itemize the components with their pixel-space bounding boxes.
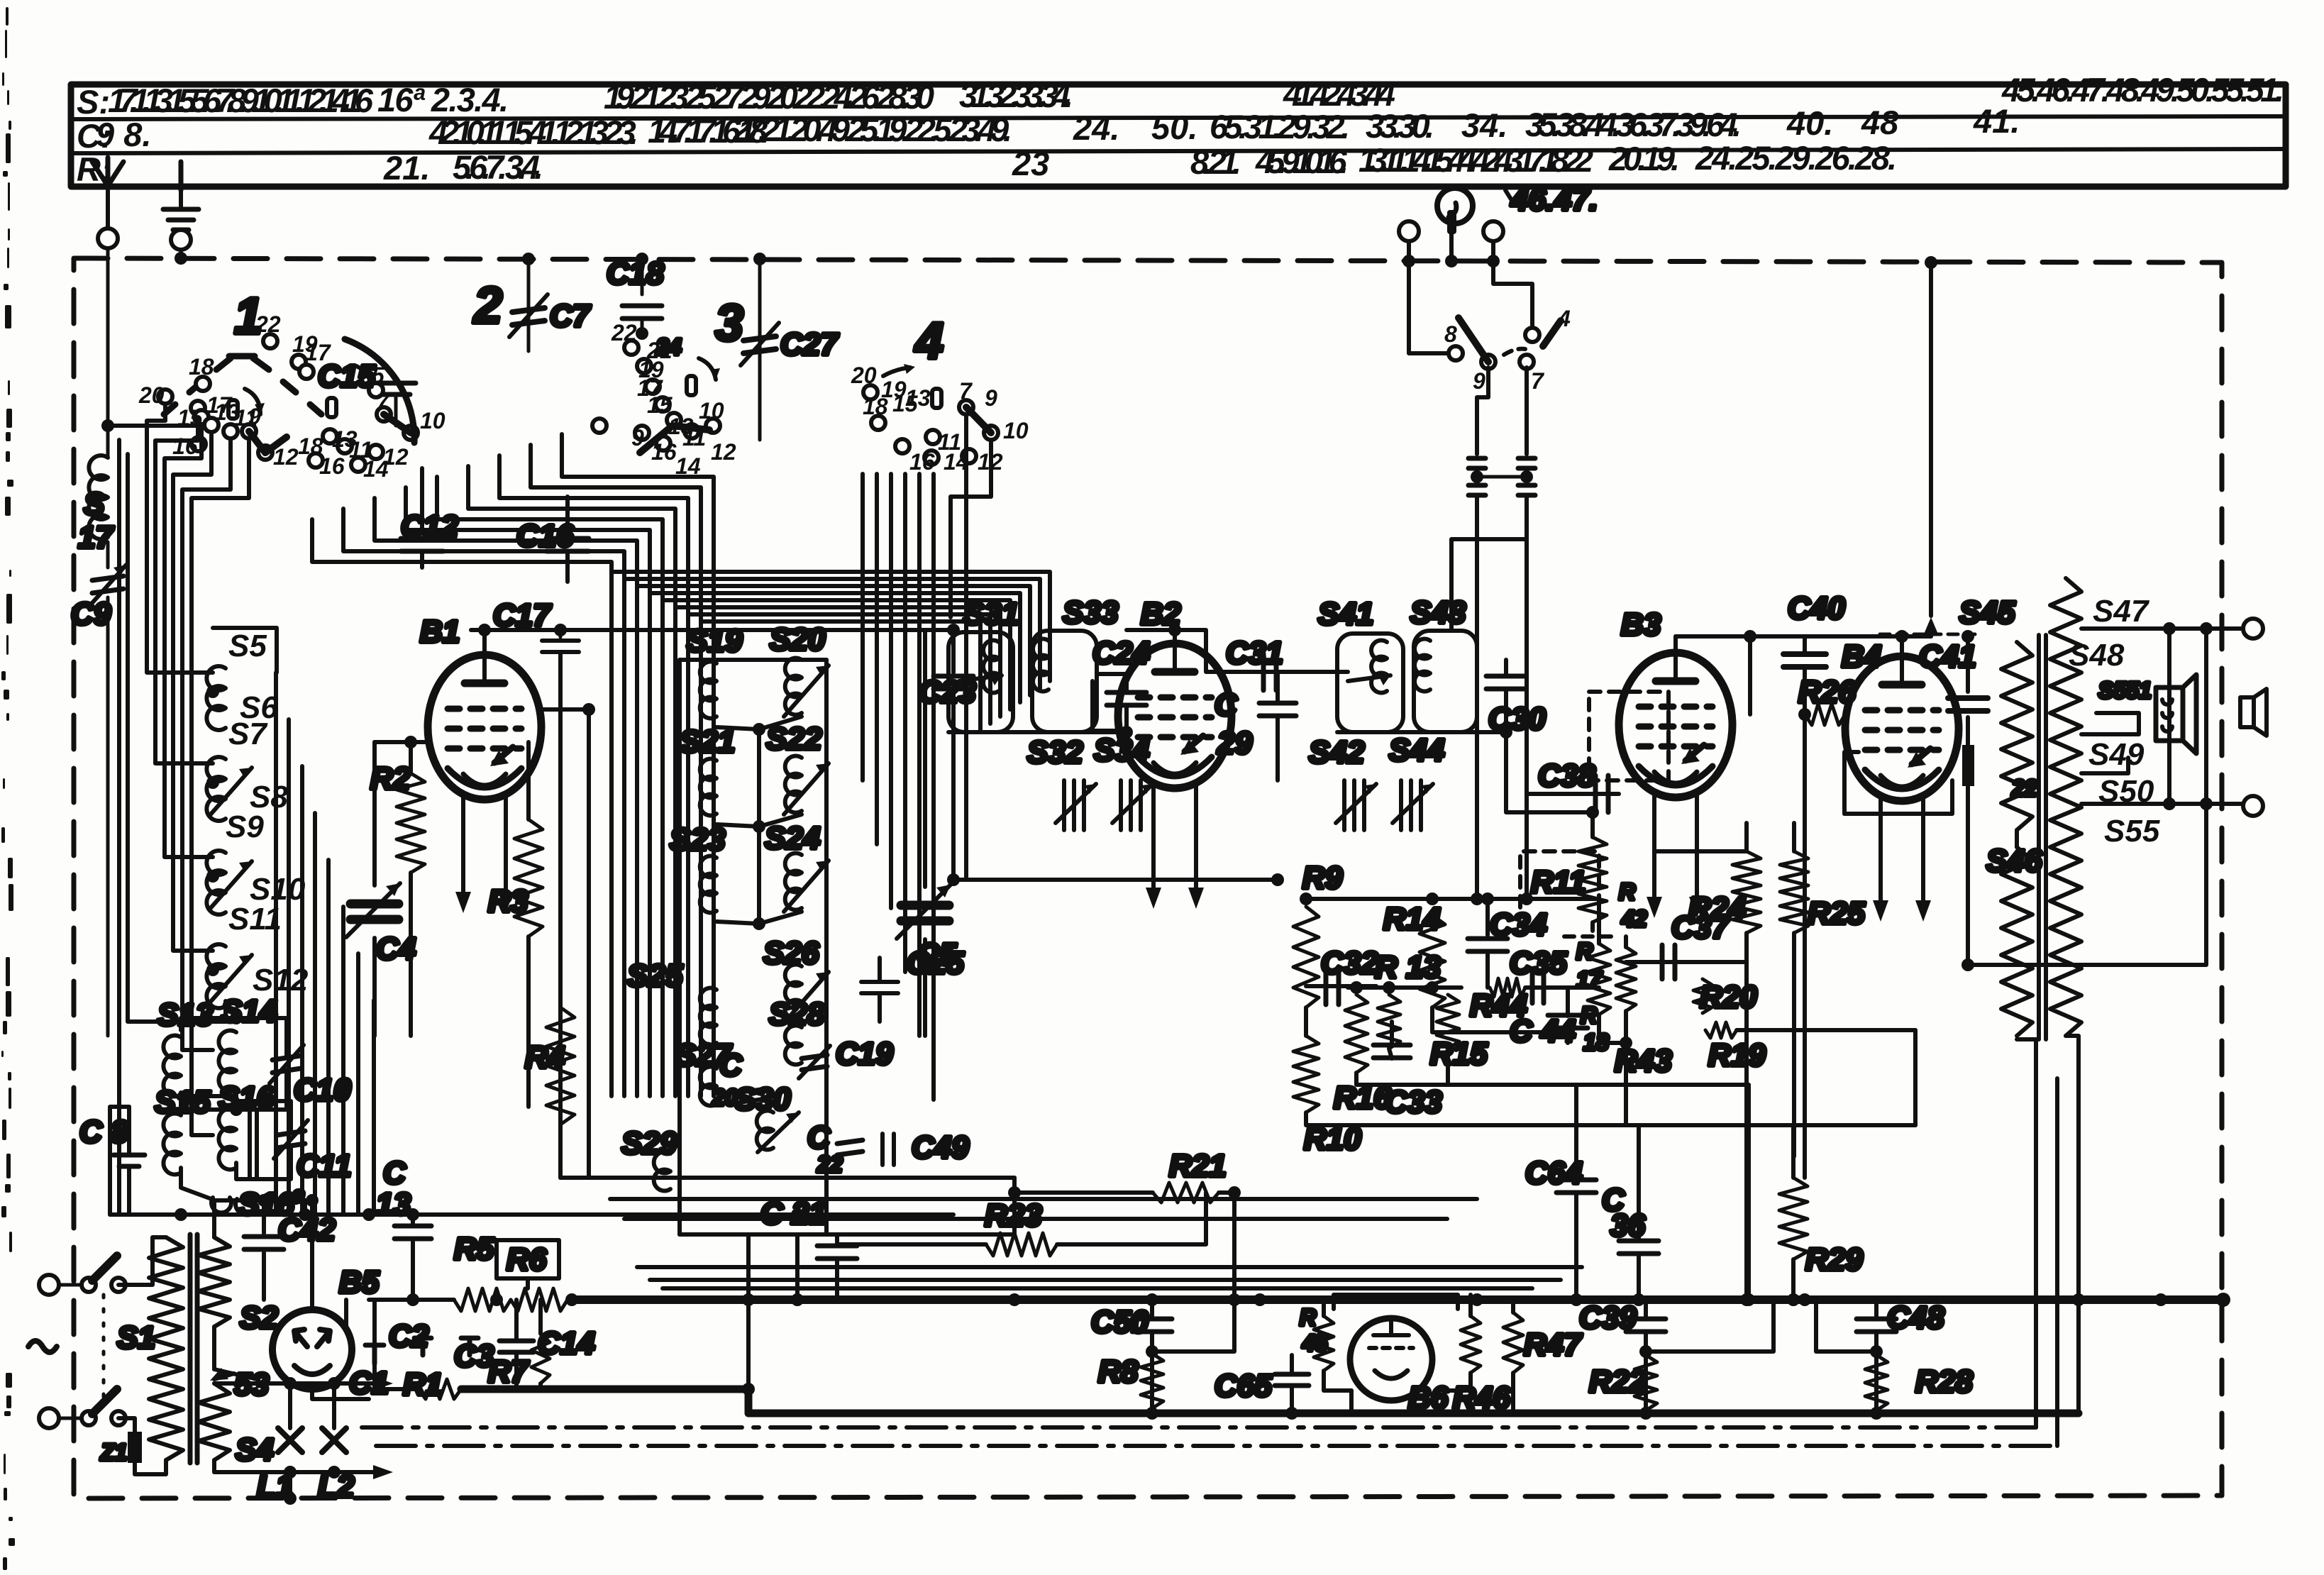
- svg-text:C19: C19: [836, 1037, 893, 1071]
- svg-text:9: 9: [985, 385, 997, 411]
- svg-text:R43: R43: [1615, 1044, 1672, 1078]
- svg-text:R19: R19: [1708, 1038, 1766, 1073]
- middle bank junction dots: [753, 723, 765, 736]
- long verticals through AF area: [1525, 794, 1529, 899]
- svg-text:C38: C38: [1538, 758, 1595, 793]
- svg-text:20.19.: 20.19.: [1608, 140, 1680, 177]
- svg-text:C7: C7: [550, 299, 592, 333]
- svg-text:12: 12: [711, 439, 736, 465]
- parts row C: [77, 102, 2020, 155]
- svg-text:10: 10: [420, 408, 446, 433]
- svg-text:4: 4: [914, 313, 944, 370]
- svg-text:20: 20: [712, 1085, 738, 1110]
- tube B3 filament leads: [1652, 793, 1656, 900]
- svg-text:S2: S2: [240, 1300, 278, 1335]
- wire gram right line down: [1525, 495, 1529, 794]
- coil S26 variable: [785, 965, 802, 1022]
- wire bundle horizontal staircase to IF strip: [613, 572, 1050, 731]
- wire IF lower rail: [953, 878, 1278, 882]
- gram switch contacts: [1409, 241, 1447, 353]
- svg-text:18: 18: [298, 433, 323, 459]
- svg-text:S19: S19: [687, 624, 743, 658]
- wire B2 grid left: [1092, 681, 1118, 731]
- svg-text:B1: B1: [420, 614, 460, 649]
- svg-text:41.: 41.: [1973, 102, 2020, 140]
- svg-text:17.1.13.15.5.6.7.8.9.10.11.12.: 17.1.13.15.5.6.7.8.9.10.11.12.14.16: [108, 82, 374, 119]
- wafer 3 pin labels: [611, 320, 736, 479]
- low-tension bus: [397, 1387, 419, 1391]
- tap wires secondary S49 box: [2081, 713, 2139, 734]
- svg-text:B6: B6: [1408, 1381, 1449, 1415]
- svg-text:20: 20: [138, 382, 165, 408]
- coil S17: [89, 455, 108, 539]
- svg-text:2: 2: [472, 277, 502, 334]
- svg-text:C17: C17: [493, 598, 552, 633]
- coil S15: [163, 1114, 181, 1175]
- svg-text:S42: S42: [1309, 735, 1365, 770]
- svg-text:S32: S32: [1027, 735, 1083, 770]
- mains switch lower: [82, 1411, 96, 1425]
- svg-text:R5: R5: [454, 1232, 494, 1266]
- svg-text:42.10.11 15.41.12.13.2.3.: 42.10.11 15.41.12.13.2.3.: [428, 114, 638, 151]
- coil S24 variable: [785, 853, 802, 910]
- wire bundle from wafer 1 to left coil bank: [147, 407, 249, 1135]
- chassis dashed border: [74, 258, 2222, 1498]
- svg-text:B5: B5: [339, 1265, 380, 1300]
- coil S9 variable: [206, 851, 226, 914]
- svg-text:S48: S48: [2069, 638, 2125, 673]
- svg-text:11: 11: [682, 425, 706, 451]
- svg-text:7: 7: [959, 378, 973, 404]
- mains switch upper: [82, 1278, 96, 1292]
- wire earth into chassis: [179, 250, 183, 258]
- svg-text:31.32.33.34.: 31.32.33.34.: [959, 77, 1073, 114]
- svg-text:C1: C1: [349, 1366, 389, 1400]
- svg-text:24.: 24.: [1073, 109, 1119, 147]
- lower left horizontal bus wires: [110, 1212, 953, 1217]
- svg-text:S45: S45: [1959, 595, 2015, 630]
- B6 box wires: [1334, 1295, 1458, 1309]
- svg-text:9: 9: [1473, 368, 1485, 394]
- svg-text:R47: R47: [1524, 1327, 1583, 1362]
- svg-text:C 21: C 21: [760, 1196, 826, 1231]
- svg-text:42: 42: [1621, 906, 1647, 932]
- svg-text:16: 16: [909, 449, 935, 475]
- svg-text:S43: S43: [1410, 595, 1466, 630]
- coil S19: [700, 662, 716, 719]
- svg-text:C42: C42: [278, 1212, 336, 1247]
- svg-text:9: 9: [248, 404, 261, 429]
- junction dots on left coils: [206, 685, 219, 698]
- svg-text:R: R: [1300, 1305, 1316, 1330]
- trimmer capacitor C10: [272, 1056, 301, 1060]
- svg-text:C: C: [719, 1048, 743, 1083]
- svg-text:46.47.: 46.47.: [1510, 182, 1598, 217]
- wire top border to B4 area: [1929, 262, 1933, 616]
- svg-text:Z1: Z1: [100, 1439, 127, 1465]
- svg-text:S33: S33: [1063, 595, 1118, 630]
- svg-text:29: 29: [1217, 726, 1252, 761]
- coil S23: [700, 856, 716, 913]
- wires around S13/S14 box: [181, 1018, 236, 1030]
- coil S13: [163, 1036, 181, 1097]
- wire long verticals from wafer 4 to C5: [951, 443, 991, 617]
- trimmer capacitor C7: [527, 259, 531, 351]
- wire bundle wafer 2/3 verticals: [312, 434, 714, 1096]
- svg-text:10: 10: [699, 398, 724, 424]
- speaker tap mid row: [2081, 802, 2242, 806]
- wires around S15/S16 box: [181, 1096, 236, 1108]
- svg-text:3: 3: [715, 295, 743, 352]
- svg-text:8. 21.: 8. 21.: [1190, 143, 1241, 181]
- svg-text:S14: S14: [221, 994, 277, 1029]
- wire antenna to S17: [106, 248, 110, 426]
- parts-list table frame: [71, 84, 2286, 187]
- svg-text:4: 4: [1557, 306, 1571, 331]
- coil S16 with core: [218, 1109, 236, 1170]
- wafer 2 contacts: [263, 334, 418, 472]
- wire C24 to B2 top: [1127, 628, 1175, 632]
- coil S25: [700, 988, 716, 1045]
- svg-text:L2: L2: [318, 1469, 355, 1504]
- svg-text:C9: C9: [71, 597, 111, 631]
- wire S43 top to gram switch: [1451, 539, 1527, 631]
- svg-text:C65: C65: [1214, 1369, 1272, 1403]
- svg-text:R14: R14: [1383, 902, 1441, 936]
- svg-text:17: 17: [305, 340, 332, 365]
- svg-text:9: 9: [631, 425, 644, 451]
- svg-text:C35: C35: [1510, 946, 1567, 980]
- output transformer secondary S47-S55: [2050, 578, 2081, 1036]
- svg-text:45.46.47.48.49.50.55.51.: 45.46.47.48.49.50.55.51.: [2001, 71, 2284, 109]
- svg-text:20: 20: [851, 363, 877, 388]
- svg-text:S5: S5: [228, 629, 267, 663]
- wires S12 to S13/S14: [213, 1001, 226, 1022]
- svg-text:S44: S44: [1389, 733, 1444, 768]
- left bank labels: [226, 629, 309, 997]
- svg-text:S7: S7: [228, 717, 268, 751]
- svg-text:S551: S551: [2098, 678, 2152, 703]
- svg-text:R7: R7: [488, 1354, 530, 1389]
- svg-text:13: 13: [905, 385, 931, 411]
- svg-text:C27: C27: [780, 327, 839, 362]
- svg-text:C11: C11: [297, 1149, 351, 1183]
- wafer 4 contacts: [863, 364, 998, 465]
- svg-text:33.30.: 33.30.: [1366, 107, 1434, 145]
- variable capacitor C9: [106, 542, 110, 568]
- parts row R: [77, 139, 1897, 188]
- svg-text:C33: C33: [1385, 1085, 1442, 1120]
- external speaker: [2240, 697, 2254, 727]
- main HT bus: [572, 1295, 2223, 1304]
- decoupling caps on gram lines: [1468, 456, 1485, 461]
- svg-text:L1: L1: [257, 1469, 293, 1504]
- wafer 3 contacts: [592, 341, 720, 453]
- svg-text:S41: S41: [1318, 597, 1373, 631]
- svg-text:13: 13: [332, 426, 358, 452]
- svg-text:R8: R8: [1098, 1354, 1139, 1389]
- coil S5: [206, 666, 226, 730]
- svg-text:S24: S24: [765, 821, 820, 856]
- svg-text:16: 16: [172, 433, 198, 459]
- mains terminal upper: [39, 1275, 59, 1295]
- coil S11 variable: [206, 944, 226, 1008]
- svg-text:23: 23: [1012, 145, 1049, 182]
- scan noise left edge: [1, 7, 15, 1570]
- coil S30 variable: [757, 1111, 773, 1150]
- wire bundle wafer 4 drops: [863, 474, 934, 1100]
- svg-text:7: 7: [376, 389, 390, 415]
- svg-text:S25: S25: [627, 958, 683, 993]
- lower long horizontals: [560, 1176, 1014, 1180]
- variable capacitor C4: [375, 740, 411, 744]
- svg-text:10: 10: [1003, 418, 1029, 443]
- svg-text:S47: S47: [2093, 594, 2150, 629]
- svg-text:S20: S20: [770, 622, 826, 657]
- svg-text:C40: C40: [1788, 591, 1845, 626]
- coil S29: [654, 1152, 670, 1191]
- output terminal top: [2243, 619, 2263, 639]
- svg-text:R 13: R 13: [1375, 950, 1441, 985]
- coil S27: [700, 1067, 716, 1106]
- svg-text:45. 9.10.16.: 45. 9.10.16.: [1255, 143, 1349, 180]
- svg-text:5: 5: [372, 363, 385, 388]
- svg-text:R25: R25: [1808, 896, 1865, 931]
- svg-text:S12: S12: [253, 963, 309, 997]
- svg-text:S28: S28: [769, 997, 825, 1032]
- svg-text:C5: C5: [917, 937, 957, 972]
- svg-text:34.: 34.: [1461, 106, 1507, 144]
- coil S21: [700, 759, 716, 816]
- svg-text:C37: C37: [1671, 910, 1730, 945]
- svg-text:C50: C50: [1091, 1305, 1149, 1339]
- speaker output top tap: [2081, 626, 2242, 631]
- earth terminal: [179, 186, 183, 209]
- resistor element 22: [1962, 745, 1974, 786]
- svg-text:C64: C64: [1525, 1156, 1583, 1190]
- svg-text:S13: S13: [157, 997, 213, 1032]
- coil S28 variable: [785, 1026, 802, 1065]
- wire B5 cathode to bus: [312, 1389, 369, 1399]
- svg-text:R23: R23: [985, 1198, 1042, 1233]
- svg-text:S31: S31: [963, 597, 1019, 631]
- svg-text:C 8: C 8: [79, 1115, 128, 1149]
- svg-text:S9: S9: [226, 809, 264, 844]
- svg-text:S4: S4: [236, 1432, 274, 1467]
- svg-text:C: C: [807, 1120, 831, 1155]
- svg-text:18: 18: [189, 354, 214, 380]
- wire bank bottom to bus: [746, 1234, 751, 1300]
- svg-text:C18: C18: [607, 256, 664, 291]
- svg-text:S11: S11: [228, 902, 282, 936]
- coil S22 variable: [785, 756, 802, 813]
- dashed AVC box: [1520, 851, 1599, 907]
- svg-text:65.31.29.32.: 65.31.29.32.: [1210, 108, 1350, 145]
- right side verticals to bus: [2066, 1036, 2079, 1413]
- svg-text:S29: S29: [621, 1126, 677, 1161]
- svg-text:5.6.7. 3.4.: 5.6.7. 3.4.: [453, 148, 543, 186]
- cluster connecting wires: [1306, 1112, 1915, 1125]
- wires gram switch down: [1477, 367, 1488, 454]
- svg-text:R: R: [1619, 879, 1635, 905]
- wire through speaker: [2167, 629, 2171, 804]
- wires S41-S43 bottoms: [1337, 730, 1506, 734]
- svg-text:35.38.44.36.37.39.64.: 35.38.44.36.37.39.64.: [1525, 106, 1742, 143]
- wire B3 top cap row: [1676, 634, 1931, 639]
- svg-text:C: C: [383, 1156, 406, 1190]
- coil S14: [218, 1031, 236, 1092]
- extra left verticals: [117, 440, 121, 1215]
- svg-text:12: 12: [273, 444, 299, 470]
- wafer 1 pin labels: [138, 354, 299, 470]
- svg-text:R29: R29: [1805, 1242, 1863, 1277]
- bottom heater dash-dot wires: [362, 1425, 2036, 1430]
- svg-text:R21: R21: [1169, 1149, 1227, 1183]
- wire B1 top row: [471, 628, 953, 632]
- svg-text:S49: S49: [2088, 737, 2145, 772]
- secondary labels: [2069, 594, 2160, 849]
- svg-text:27.21.20.49.25.19.22.5.23.49.: 27.21.20.49.25.19.22.5.23.49.: [732, 111, 1012, 148]
- tube B2 filament leads: [1151, 784, 1156, 890]
- gram terminals: [1399, 221, 1419, 241]
- open rect at B4 cathode: [1844, 752, 1859, 814]
- left bank outer wires: [213, 628, 277, 673]
- dashed screen box at B3: [1589, 692, 1669, 780]
- svg-text:9 8.: 9 8.: [96, 116, 151, 153]
- svg-text:S: S: [84, 487, 104, 521]
- AC symbol: [28, 1341, 57, 1352]
- output transformer core: [2037, 635, 2041, 1039]
- svg-text:8: 8: [1444, 321, 1457, 347]
- svg-text:C: C: [1214, 687, 1238, 722]
- svg-text:R28: R28: [1915, 1364, 1973, 1399]
- variable capacitor C5: [923, 630, 927, 887]
- svg-text:7: 7: [1531, 368, 1545, 394]
- wafer 4 pin labels: [851, 363, 1029, 475]
- svg-text:24.25.29.26.28.: 24.25.29.26.28.: [1695, 139, 1897, 177]
- svg-text:C10: C10: [294, 1073, 351, 1107]
- gram motor symbol: [1437, 188, 1473, 223]
- svg-text:13.11.14.15.44. 42.43.17.18. 2: 13.11.14.15.44. 42.43.17.18. 22: [1359, 141, 1593, 179]
- svg-text:21.: 21.: [383, 149, 430, 187]
- wires S31-S33 bottoms: [948, 730, 1127, 734]
- trimmer capacitor C27: [758, 259, 762, 440]
- svg-text:C4: C4: [376, 932, 416, 966]
- tube B1 filament leads: [461, 795, 465, 895]
- mains terminal lower: [39, 1408, 59, 1428]
- tube B4 filament leads: [1878, 797, 1883, 903]
- switch dash link: [102, 1295, 106, 1408]
- coil S16a: [211, 1198, 255, 1214]
- svg-text:22: 22: [611, 320, 637, 346]
- svg-text:R46: R46: [1453, 1381, 1510, 1415]
- wire from bank bottom down: [795, 1234, 799, 1300]
- wire AVC row: [1306, 897, 1599, 901]
- wire B1 screen down: [541, 709, 589, 1178]
- svg-text:S55: S55: [2104, 814, 2160, 849]
- capacitor C21: [817, 1244, 857, 1249]
- coil S7 variable: [206, 757, 226, 821]
- antenna terminal: [92, 157, 123, 186]
- wire gram left line down to AF: [1475, 495, 1479, 899]
- svg-text:B3: B3: [1621, 607, 1661, 642]
- output terminal bottom: [2243, 796, 2263, 816]
- wafer 2 pin labels: [255, 311, 446, 482]
- middle bank frame wires: [677, 660, 682, 1234]
- transformer S1 core: [188, 1234, 193, 1463]
- svg-text:R: R: [1581, 1002, 1597, 1028]
- dashed bits near B4 top: [1880, 633, 1979, 636]
- svg-text:48: 48: [1861, 104, 1899, 141]
- svg-text:S23: S23: [670, 822, 725, 857]
- svg-text:50.: 50.: [1151, 109, 1197, 146]
- svg-text:S26: S26: [763, 936, 819, 971]
- svg-text:C49: C49: [912, 1130, 969, 1165]
- svg-text:R9: R9: [1302, 861, 1343, 895]
- wire right edge feedback: [1968, 629, 2206, 965]
- svg-text:13: 13: [376, 1187, 411, 1222]
- coil S20 variable: [785, 658, 802, 714]
- svg-text:R6: R6: [507, 1242, 547, 1277]
- svg-text:40.: 40.: [1786, 104, 1833, 142]
- svg-text:C32: C32: [1321, 946, 1378, 980]
- svg-text:22: 22: [255, 311, 281, 337]
- pilot lamps L1 L2: [284, 1377, 297, 1390]
- svg-text:19: 19: [881, 377, 907, 402]
- parts row S: [77, 71, 2284, 121]
- trimmer capacitor C11: [277, 1131, 305, 1135]
- gram switch labels: [1444, 306, 1571, 394]
- svg-text:16: 16: [651, 439, 677, 465]
